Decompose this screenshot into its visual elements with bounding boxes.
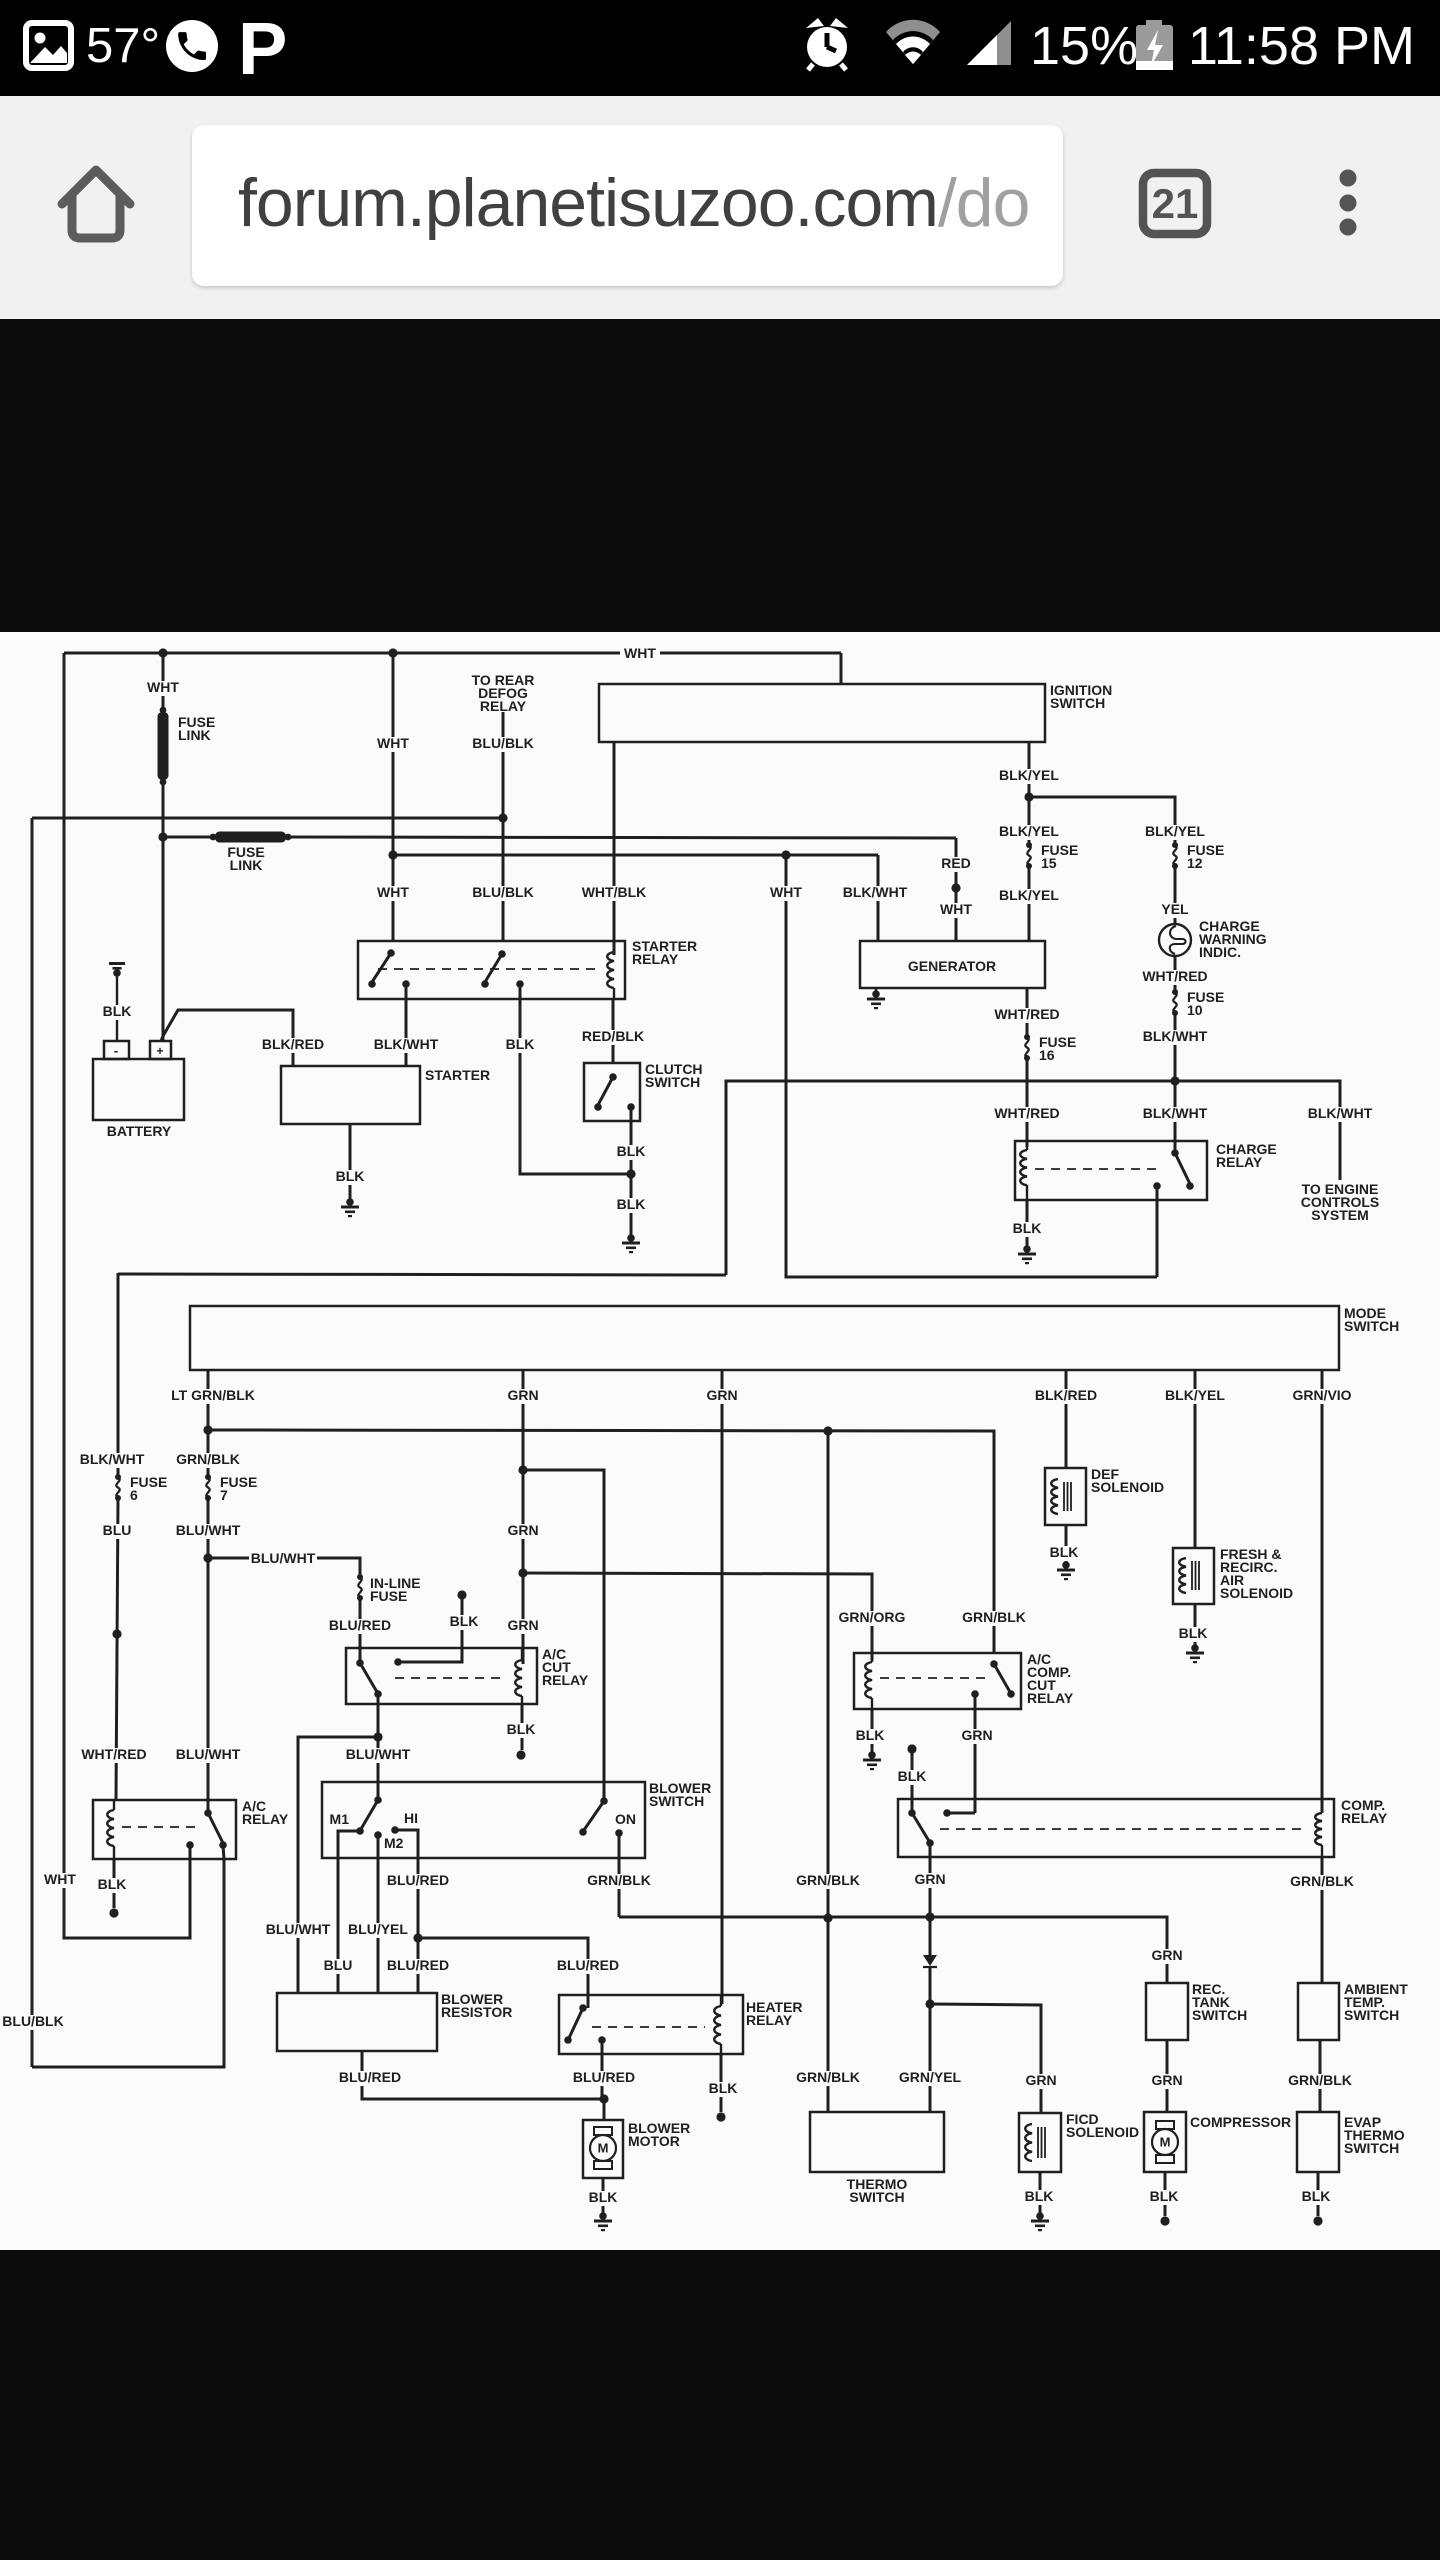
heater relay dashed link <box>592 2026 705 2028</box>
status: wifi icon <box>886 20 940 64</box>
heater relay switch <box>564 2004 606 2044</box>
wire M1 to BLU pin <box>338 1831 360 1858</box>
wire BLK/WHT fuse10 down <box>1174 1013 1177 1153</box>
wire BLK relay switch2 out <box>520 984 631 1174</box>
blower switch M2 contact <box>374 1831 382 1839</box>
wire GRN to FICD <box>930 2004 1041 2113</box>
junction GRN/YEL split <box>925 1999 934 2008</box>
svg-text:BLK/RED: BLK/RED <box>1035 1387 1097 1403</box>
node BLK label 2 <box>614 1196 648 1213</box>
node GRN label compressor <box>1150 2072 1185 2089</box>
starter relay dashed link <box>378 968 600 970</box>
node GRN label rec tank <box>1150 1947 1185 1964</box>
svg-text:SWITCH: SWITCH <box>1344 1318 1399 1334</box>
svg-text:15: 15 <box>1041 855 1057 871</box>
svg-text:P: P <box>238 7 287 90</box>
svg-text:GRN/BLK: GRN/BLK <box>796 1872 860 1888</box>
node BLK/WHT to engine controls <box>1306 1105 1374 1122</box>
blower switch M1 label <box>330 1811 350 1827</box>
wire BLK/YEL branch to fuse 12 <box>1029 797 1175 845</box>
svg-text:BLU/BLK: BLU/BLK <box>472 884 533 900</box>
svg-text:WHT: WHT <box>44 1871 76 1887</box>
a/c cut relay switch <box>356 1659 382 1698</box>
svg-text:BLK: BLK <box>709 2080 738 2096</box>
starter relay label <box>632 938 697 967</box>
node BLU/WHT label 2 <box>174 1746 242 1763</box>
terminal BLK evap <box>1313 2216 1322 2225</box>
a/c comp cut switch <box>971 1660 1015 1698</box>
status: battery icon <box>1136 20 1173 70</box>
node RED/BLK label <box>580 1028 645 1045</box>
fuse 6 label <box>130 1474 167 1503</box>
svg-text:BLU/YEL: BLU/YEL <box>348 1921 408 1937</box>
node GRN/YEL label <box>897 2069 962 2086</box>
charge relay dashed link <box>1035 1168 1160 1170</box>
status: alarm clock <box>806 18 848 70</box>
svg-text:WHT: WHT <box>377 735 409 751</box>
svg-text:BLU/RED: BLU/RED <box>329 1617 391 1633</box>
svg-text:BLU/RED: BLU/RED <box>387 1957 449 1973</box>
a/c comp cut dashed link <box>880 1677 985 1679</box>
junction RED/WHT <box>951 883 960 892</box>
svg-text:RESISTOR: RESISTOR <box>441 2004 512 2020</box>
junction BLU/WHT split below ac cut <box>373 1732 382 1741</box>
svg-text:RELAY: RELAY <box>1341 1810 1388 1826</box>
ground clutch circuit <box>622 1234 640 1253</box>
junction fuse-link row at battery column <box>158 832 167 841</box>
svg-text:BLK: BLK <box>589 2189 618 2205</box>
wire thermo bus <box>619 1917 1167 1983</box>
blower motor label <box>628 2120 690 2149</box>
node GRN label compcut out <box>960 1727 995 1744</box>
compressor label <box>1190 2114 1291 2130</box>
junction top feed / battery column <box>158 648 167 657</box>
svg-text:RELAY: RELAY <box>242 1811 289 1827</box>
blower switch M1 blade <box>356 1796 382 1835</box>
node TO ENGINE CONTROLS SYSTEM <box>1301 1181 1380 1223</box>
wire GRN to blower switch <box>523 1470 604 1801</box>
clutch switch contacts <box>594 1073 635 1111</box>
svg-text:WHT: WHT <box>377 884 409 900</box>
generator label <box>908 958 996 974</box>
wire BLK a/c relay coil end <box>95 1859 129 1918</box>
wire WHT battery column <box>145 653 181 712</box>
junction WHT row start <box>388 850 397 859</box>
node GRN label ficd <box>1024 2072 1059 2089</box>
wire BLU/BLK a/c relay contact loop <box>32 1845 224 2067</box>
battery negative terminal <box>104 1041 129 1059</box>
wire BLK/YEL mode pin5 <box>1194 1370 1197 1548</box>
node WHT/RED label <box>1141 968 1209 985</box>
svg-text:YEL: YEL <box>1161 901 1189 917</box>
svg-text:GRN/ORG: GRN/ORG <box>839 1609 906 1625</box>
lamp charge warning indicator <box>1159 924 1191 956</box>
node BLK/WHT label <box>841 884 909 901</box>
ground comp cut relay <box>863 1751 881 1770</box>
svg-text:GRN: GRN <box>1151 1947 1182 1963</box>
ambient temp switch box <box>1298 1983 1339 2040</box>
rec tank switch box <box>1146 1983 1188 2040</box>
node BLK label compressor <box>1147 2188 1181 2205</box>
wire GRN/YEL to thermo switch <box>929 2004 932 2112</box>
wire BLK compressor <box>1164 2172 1167 2216</box>
wire BLU/RED resistor out <box>362 2051 604 2099</box>
fuse link FL1 label <box>178 714 215 743</box>
wire BLU fuse6 down <box>116 1498 118 1800</box>
terminal BLK compressor <box>1160 2216 1169 2225</box>
svg-text:15%: 15% <box>1030 16 1138 76</box>
wire BLK blower motor <box>602 2178 605 2214</box>
fuse 10 <box>1172 989 1178 1016</box>
node WHT/RED label gen <box>993 1006 1061 1023</box>
node WHT/RED label 2 <box>993 1105 1061 1122</box>
node BLK/YEL label 4 <box>997 887 1061 904</box>
svg-text:M1: M1 <box>330 1811 350 1827</box>
node WHT/BLK label <box>580 884 648 901</box>
svg-text:11:58 PM: 11:58 PM <box>1188 16 1415 76</box>
fuse 6 <box>115 1474 121 1501</box>
node BLU/RED resistor out label <box>337 2069 402 2086</box>
junction thermo bus at GRN/YEL column <box>925 1912 934 1921</box>
wire BLU/RED to heater relay <box>418 1938 588 2008</box>
node WHT/RED label ac relay <box>80 1746 148 1763</box>
svg-text:BLK/WHT: BLK/WHT <box>1143 1105 1208 1121</box>
evap thermo switch label <box>1344 2114 1405 2156</box>
node BLK/WHT fuse6 label <box>78 1451 146 1468</box>
a/c comp cut relay box <box>854 1653 1021 1709</box>
fuse 15 label <box>1041 842 1078 871</box>
fuse link FL1 vertical <box>158 707 169 786</box>
a/c cut relay coil <box>515 1648 522 1704</box>
node BLK label evap <box>1299 2188 1333 2205</box>
ground above battery <box>109 962 125 1041</box>
wire BLU/BLK defog column <box>502 712 505 941</box>
svg-text:-: - <box>114 1043 118 1058</box>
wire BLK/YEL fuse15 to generator <box>1028 866 1031 941</box>
svg-text:RELAY: RELAY <box>746 2012 793 2028</box>
svg-text:SWITCH: SWITCH <box>649 1793 704 1809</box>
svg-text:SWITCH: SWITCH <box>645 1074 700 1090</box>
ground blower motor <box>594 2212 612 2231</box>
blower motor box <box>583 2120 623 2178</box>
junction WHT row at charge-relay branch <box>781 850 790 859</box>
svg-text:GRN/BLK: GRN/BLK <box>796 2069 860 2085</box>
wire WHT generator row <box>393 854 878 857</box>
node BLU/WHT label <box>174 1522 242 1539</box>
ground at generator <box>867 988 885 1009</box>
generator box <box>860 941 1045 988</box>
node BLU/RED label hi <box>385 1872 450 1889</box>
node WHT label on top feed <box>624 645 656 661</box>
svg-text:INDIC.: INDIC. <box>1199 944 1241 960</box>
wire BLU/RED heater out <box>601 2040 604 2099</box>
fuse 12 label <box>1187 842 1224 871</box>
svg-text:BLK: BLK <box>103 1003 132 1019</box>
wire BLK heater coil end <box>706 2054 740 2122</box>
svg-text:16: 16 <box>1039 1047 1055 1063</box>
node LT GRN/BLK label <box>167 1387 259 1404</box>
wire to blower motor <box>603 2099 606 2120</box>
node BLU/WHT jumper label <box>249 1550 317 1567</box>
diode on GRN/YEL column <box>923 1917 937 2004</box>
status: phone icon <box>166 20 218 72</box>
svg-text:GRN: GRN <box>1151 2072 1182 2088</box>
svg-text:LT GRN/BLK: LT GRN/BLK <box>171 1387 255 1403</box>
svg-text:BLK: BLK <box>1150 2188 1179 2204</box>
wire RED/WHT drop to generator <box>955 838 958 941</box>
ficd solenoid coil <box>1025 2124 1045 2161</box>
node BLK/RED label p4 <box>1033 1387 1098 1404</box>
node BLK/YEL label 1 <box>997 767 1061 784</box>
svg-text:WHT: WHT <box>147 679 179 695</box>
svg-text:GRN: GRN <box>507 1522 538 1538</box>
svg-text:SYSTEM: SYSTEM <box>1311 1207 1369 1223</box>
lamp label CHARGE WARNING INDIC. <box>1199 918 1267 960</box>
svg-text:SOLENOID: SOLENOID <box>1066 2124 1139 2140</box>
wire BLK/YEL ignition output <box>1028 742 1031 845</box>
svg-text:BLK: BLK <box>1050 1544 1079 1560</box>
node BLU/RED heater out label <box>571 2069 636 2086</box>
fuse link FL2 horizontal <box>210 832 292 843</box>
svg-text:SOLENOID: SOLENOID <box>1091 1479 1164 1495</box>
charge relay label <box>1216 1141 1277 1170</box>
wire BLU/BLK return path left edge <box>32 818 503 2067</box>
fresh air solenoid coil <box>1179 1558 1199 1593</box>
wire GRN to comp cut coil <box>523 1573 872 1660</box>
evap thermo switch box <box>1297 2112 1339 2172</box>
svg-text:SOLENOID: SOLENOID <box>1220 1585 1293 1601</box>
in-line fuse label <box>370 1575 421 1604</box>
browser tab counter <box>1131 165 1231 255</box>
svg-text:GRN/BLK: GRN/BLK <box>587 1872 651 1888</box>
mode switch label <box>1344 1305 1399 1334</box>
wire WHT left trunk down to A/C relay feed <box>64 653 190 1938</box>
node BLK stub comp relay <box>907 1744 916 1813</box>
svg-text:COMPRESSOR: COMPRESSOR <box>1190 2114 1291 2130</box>
svg-text:12: 12 <box>1187 855 1203 871</box>
node BLK stub label <box>447 1613 481 1630</box>
junction BLK clutch/starter-relay <box>626 1169 635 1178</box>
fresh air solenoid label <box>1220 1546 1293 1601</box>
svg-text:BLK: BLK <box>98 1876 127 1892</box>
fuse 15 <box>1026 842 1032 869</box>
blower motor <box>590 2127 616 2169</box>
svg-text:BLK/YEL: BLK/YEL <box>999 767 1059 783</box>
node GRN/VIO label p6 <box>1291 1387 1354 1404</box>
browser url field <box>192 125 1063 286</box>
wire BLU/WHT to blower switch <box>377 1737 380 1800</box>
wire charge relay output <box>1156 1186 1159 1277</box>
svg-text:GRN: GRN <box>914 1871 945 1887</box>
svg-text:SWITCH: SWITCH <box>849 2189 904 2205</box>
svg-text:BLU/RED: BLU/RED <box>557 1957 619 1973</box>
svg-text:SWITCH: SWITCH <box>1344 2007 1399 2023</box>
svg-text:SWITCH: SWITCH <box>1050 695 1105 711</box>
wire BLK charge relay coil ground <box>1026 1200 1029 1247</box>
wire WHT/RED generator to fuse 16 <box>1026 988 1029 1037</box>
fuse 12 <box>1172 842 1178 869</box>
wire GRN rec tank to compressor <box>1166 2040 1169 2112</box>
wire BLK/WHT relay to starter <box>405 984 408 1066</box>
svg-text:RELAY: RELAY <box>1027 1690 1074 1706</box>
wire WHT/RED lamp to fuse 10 <box>1174 956 1177 992</box>
svg-text:BLK: BLK <box>507 1721 536 1737</box>
wire GRN mode pin3 to heater relay <box>721 1370 724 2004</box>
svg-text:BLU: BLU <box>103 1522 132 1538</box>
wire BLK/RED battery to starter <box>161 1010 293 1066</box>
a/c cut relay box <box>346 1648 537 1704</box>
junction mode pin1 branch <box>203 1425 212 1434</box>
comp relay NC terminal <box>943 1809 975 1817</box>
status: photo icon <box>26 23 71 68</box>
svg-text:57°: 57° <box>86 19 160 73</box>
svg-text:M: M <box>1160 2135 1171 2150</box>
svg-text:BLK: BLK <box>1013 1220 1042 1236</box>
node BLK/YEL label 3 <box>1143 823 1207 840</box>
wire BLK a/c cut coil end <box>504 1704 538 1760</box>
blower resistor label <box>441 1991 512 2020</box>
wire LT GRN/BLK mode pin 1 <box>207 1370 210 1477</box>
compressor motor <box>1152 2121 1178 2163</box>
node BLK label compcut <box>853 1727 887 1744</box>
node BLU/RED label heater <box>555 1957 620 1974</box>
a/c comp cut relay label <box>1027 1651 1074 1706</box>
comp relay label <box>1341 1797 1388 1826</box>
svg-text:BLU: BLU <box>324 1957 353 1973</box>
comp relay box <box>898 1799 1334 1857</box>
wire GRN mode pin2 <box>522 1370 525 1664</box>
wire battery positive column <box>162 782 165 1041</box>
wire GRN/BLK ambient to evap <box>1319 2040 1322 2112</box>
junction BLU/BLK at defog column <box>498 813 507 822</box>
junction thermo bus at GRN/BLK column <box>823 1913 832 1922</box>
node BLK/WHT label below bus <box>1141 1105 1209 1122</box>
svg-text:M2: M2 <box>384 1835 404 1851</box>
node WHT label lower <box>375 884 411 901</box>
fuse 10 label <box>1187 989 1224 1018</box>
a/c relay coil <box>107 1800 114 1859</box>
node WHT label ac relay feed <box>42 1871 78 1888</box>
a/c comp cut coil <box>865 1653 872 1709</box>
wire BLK/WHT fuse6 column <box>117 1273 120 1477</box>
status: cell signal <box>967 21 1011 65</box>
node YEL label <box>1159 901 1191 918</box>
wire M2 down <box>377 1835 380 1993</box>
fuse 16 <box>1024 1034 1030 1061</box>
svg-text:+: + <box>156 1044 163 1058</box>
node BLU/WHT label blower <box>344 1746 412 1763</box>
wire BLK starter ground <box>349 1124 352 1200</box>
svg-text:BLU/RED: BLU/RED <box>387 1872 449 1888</box>
fuse 7 label <box>220 1474 257 1503</box>
svg-text:BLK/WHT: BLK/WHT <box>1308 1105 1373 1121</box>
junction WHT branch at top feed <box>388 648 397 657</box>
node BLK label ficd <box>1022 2188 1056 2205</box>
svg-text:BLK/YEL: BLK/YEL <box>1145 823 1205 839</box>
blower switch M2 label <box>384 1835 404 1851</box>
node BLK/WHT label above bus <box>1141 1028 1209 1045</box>
svg-text:GRN: GRN <box>507 1387 538 1403</box>
svg-text:GRN: GRN <box>706 1387 737 1403</box>
svg-text:BLK/YEL: BLK/YEL <box>1165 1387 1225 1403</box>
wire WHT/BLK ignition to starter relay coil <box>613 742 616 955</box>
node GRN label p2b <box>506 1522 541 1539</box>
svg-text:RED/BLK: RED/BLK <box>582 1028 644 1044</box>
wire GRN/BLK comp relay coil out <box>1321 1857 1324 1983</box>
node BLU/BLK label lower <box>470 884 535 901</box>
charge relay box <box>1015 1141 1207 1200</box>
svg-text:GRN/BLK: GRN/BLK <box>1290 1873 1354 1889</box>
wire YEL fuse12 to lamp <box>1174 866 1177 924</box>
junction BLU/WHT branch <box>203 1553 212 1562</box>
svg-text:BLK: BLK <box>617 1196 646 1212</box>
wire BLU/RED HI down <box>417 1858 420 1993</box>
node BLU/RED label resistor pin <box>385 1957 450 1974</box>
svg-text:GRN/YEL: GRN/YEL <box>899 2069 962 2085</box>
wire WHT ignition branch <box>392 653 395 941</box>
svg-text:BLU/WHT: BLU/WHT <box>346 1746 411 1762</box>
node BLK/WHT label starter <box>372 1036 440 1053</box>
svg-text:BLK: BLK <box>1179 1625 1208 1641</box>
starter relay box <box>358 941 625 999</box>
junction BLU/RED heater branch <box>413 1933 422 1942</box>
clutch switch box <box>584 1063 640 1121</box>
wire BLU/WHT jumper to in-line fuse <box>208 1558 360 1577</box>
node RED label <box>939 855 973 872</box>
a/c relay box <box>93 1800 236 1859</box>
wire BLU/WHT fuse7 down <box>207 1498 210 1813</box>
node GRN/BLK label fuse7 <box>175 1451 242 1468</box>
def solenoid coil <box>1051 1479 1071 1514</box>
starter relay coil <box>607 941 614 999</box>
mode switch box <box>190 1306 1339 1370</box>
svg-text:GRN: GRN <box>507 1617 538 1633</box>
blower switch ON contact <box>615 1829 623 1858</box>
fuse 16 label <box>1039 1034 1076 1063</box>
svg-text:WHT: WHT <box>940 901 972 917</box>
starter label <box>425 1067 490 1083</box>
wire BLK/RED mode pin4 <box>1065 1370 1068 1468</box>
fresh air solenoid box <box>1173 1548 1214 1604</box>
node BLU/WHT label resistor <box>264 1921 332 1938</box>
svg-text:BLK/WHT: BLK/WHT <box>1143 1028 1208 1044</box>
wire BLK to ground <box>630 1174 633 1236</box>
node BLK label sw2 <box>503 1036 537 1053</box>
svg-text:WHT/BLK: WHT/BLK <box>582 884 647 900</box>
svg-text:STARTER: STARTER <box>425 1067 490 1083</box>
node TO REAR DEFOG RELAY <box>472 672 535 714</box>
wire BLU/WHT to blower resistor <box>298 1737 378 1993</box>
svg-text:BLU/RED: BLU/RED <box>573 2069 635 2085</box>
svg-text:BLK/WHT: BLK/WHT <box>843 884 908 900</box>
thermo switch box <box>810 2112 944 2172</box>
svg-text:BLU/WHT: BLU/WHT <box>266 1921 331 1937</box>
svg-text:GRN/BLK: GRN/BLK <box>962 1609 1026 1625</box>
ground charge relay <box>1018 1245 1036 1264</box>
charge relay coil <box>1020 1141 1027 1200</box>
node BLK battery ground label <box>100 1003 134 1020</box>
clutch switch label <box>645 1061 703 1090</box>
blower switch label <box>649 1780 711 1809</box>
svg-text:GRN/BLK: GRN/BLK <box>176 1451 240 1467</box>
svg-text:GRN/BLK: GRN/BLK <box>1288 2072 1352 2088</box>
node WHT label charge return <box>768 884 804 901</box>
junction BLK/YEL split <box>1024 792 1033 801</box>
svg-text:WHT: WHT <box>624 645 656 661</box>
a/c relay label <box>242 1798 289 1827</box>
node BLK/YEL label 2 <box>997 823 1061 840</box>
node WHT label upper <box>375 735 411 752</box>
